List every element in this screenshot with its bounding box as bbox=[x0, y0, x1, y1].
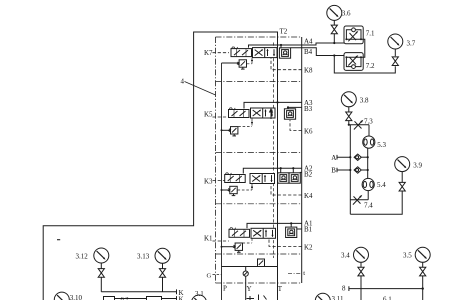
wire K6 dashed bbox=[290, 120, 302, 130]
wire A/B manifold vertical bbox=[349, 125, 351, 215]
gauge 3.5 bbox=[415, 247, 430, 262]
junction 3.8 bbox=[348, 124, 350, 126]
check cartridge C1 bbox=[286, 227, 297, 237]
valve V2 main spool bbox=[250, 174, 275, 184]
svg-text:P: P bbox=[223, 285, 227, 293]
shutoff valve under 3.6 bbox=[331, 25, 337, 34]
check cartridge C3 bbox=[284, 109, 295, 119]
svg-text:B1: B1 bbox=[304, 225, 313, 233]
svg-text:Y: Y bbox=[247, 285, 252, 293]
wire T2 supply pipeline bbox=[43, 32, 277, 300]
solenoid S3 bbox=[229, 108, 250, 118]
solenoid S4 bbox=[231, 47, 252, 57]
svg-text:3.8: 3.8 bbox=[360, 96, 369, 104]
svg-text:3.6: 3.6 bbox=[342, 9, 351, 17]
svg-text:6.1: 6.1 bbox=[383, 296, 392, 300]
junction A2 risers bbox=[280, 167, 282, 169]
svg-text:8: 8 bbox=[342, 284, 346, 292]
svg-text:3.9: 3.9 bbox=[413, 162, 422, 170]
wire A3 line bbox=[244, 102, 302, 108]
svg-text:K5: K5 bbox=[204, 110, 213, 118]
wire 3.4 stem bbox=[360, 262, 362, 300]
flow meter 5.4 bbox=[362, 178, 374, 190]
wire P to pilot Z3 bbox=[222, 129, 231, 131]
svg-text:B2: B2 bbox=[304, 170, 313, 178]
valve V1 main spool bbox=[251, 228, 276, 238]
relief arrow S3 bbox=[270, 109, 273, 119]
check cartridge C2a bbox=[278, 173, 289, 183]
svg-text:3.4: 3.4 bbox=[341, 251, 350, 259]
svg-text:T2: T2 bbox=[280, 28, 288, 36]
svg-text:7.3: 7.3 bbox=[364, 118, 373, 126]
svg-text:3.11: 3.11 bbox=[332, 295, 344, 300]
throttle 7.3 bbox=[349, 124, 369, 126]
svg-text:K: K bbox=[179, 296, 184, 300]
pilot valve Z2 bbox=[228, 186, 237, 195]
gauge 3.9 bbox=[395, 157, 410, 172]
junction 3.6/A4 bbox=[333, 42, 335, 44]
valve V4 main spool bbox=[253, 48, 278, 58]
wire K1 pilot dashed bbox=[213, 240, 230, 242]
gauge 3.7 bbox=[388, 34, 403, 49]
wire P supply line bbox=[221, 63, 223, 300]
svg-text:B3: B3 bbox=[304, 105, 313, 113]
shutoff valve under 3.9 bbox=[399, 182, 405, 191]
throttle 7.4 bbox=[350, 199, 368, 201]
shutoff valve under 3.4 bbox=[358, 267, 364, 276]
svg-text:7.2: 7.2 bbox=[366, 62, 375, 70]
wire pilot dash S1 bbox=[243, 238, 253, 243]
valve V3 main spool bbox=[251, 108, 276, 118]
pilot valve Z4 bbox=[238, 60, 247, 69]
wire 3.13 stem bbox=[162, 263, 164, 292]
wire gauge 3.6 stem bbox=[333, 20, 335, 43]
svg-text:K4: K4 bbox=[304, 192, 313, 200]
svg-text:K1: K1 bbox=[204, 234, 213, 242]
svg-text:4: 4 bbox=[181, 78, 185, 86]
check valve A bbox=[354, 154, 361, 160]
wire to 5.3 bbox=[368, 125, 370, 137]
svg-text:7.4: 7.4 bbox=[364, 202, 373, 210]
svg-text:3.12: 3.12 bbox=[76, 252, 89, 260]
wire K test line bbox=[101, 289, 176, 294]
junction 3.5 line bbox=[422, 287, 424, 289]
shuttle valve block bottom bbox=[258, 259, 265, 267]
svg-text:T: T bbox=[278, 285, 283, 293]
gauge 3.12 bbox=[94, 248, 109, 263]
pilot valve Z3 bbox=[229, 127, 238, 136]
gauge 3.11 (cut) bbox=[315, 293, 330, 300]
wire 3.9 stem bbox=[401, 171, 403, 182]
shutoff valve under 3.5 bbox=[420, 267, 426, 276]
wire pilot dash S2 bbox=[238, 184, 253, 190]
svg-text:5.3: 5.3 bbox=[377, 141, 386, 149]
gauge 3.4 bbox=[354, 247, 369, 262]
wire 5.4 down bbox=[367, 191, 369, 200]
junction A4 riser bbox=[280, 44, 282, 46]
gauge 3.10 (cut) bbox=[54, 292, 69, 300]
svg-text:K7: K7 bbox=[204, 49, 213, 57]
svg-text:K8: K8 bbox=[304, 67, 313, 75]
section divider lines bbox=[216, 82, 302, 255]
svg-text:B: B bbox=[331, 167, 336, 175]
svg-text:6.2: 6.2 bbox=[121, 296, 129, 300]
wire A2 line bbox=[243, 168, 301, 173]
svg-text:K3: K3 bbox=[204, 177, 213, 185]
wire pilot dash S4 bbox=[247, 58, 252, 64]
wire bottom gallery bbox=[222, 266, 278, 268]
wire 3.7 stem bbox=[394, 49, 396, 56]
junction A1 riser bbox=[290, 222, 292, 224]
wire K4 dashed bbox=[271, 184, 302, 195]
scan speck bbox=[57, 239, 60, 240]
svg-text:3.7: 3.7 bbox=[407, 40, 416, 48]
wire K8 dashed bbox=[271, 58, 302, 70]
wire B3 line bbox=[288, 107, 302, 108]
wire bottom to 3.9 bbox=[350, 191, 402, 214]
junction A3/T bbox=[276, 101, 278, 103]
svg-text:3.5: 3.5 bbox=[403, 251, 412, 259]
wire K5 pilot dashed bbox=[213, 116, 229, 118]
wire P to pilot Z1 bbox=[222, 246, 236, 248]
wire line 8 bbox=[349, 286, 423, 291]
solenoid S1 bbox=[229, 228, 250, 238]
solenoid S2 bbox=[225, 173, 246, 183]
shutoff valve under 3.12 bbox=[98, 269, 104, 278]
wire A4 line bbox=[249, 43, 345, 48]
flow control valve 7.2 bbox=[344, 53, 363, 71]
wire A1 line bbox=[247, 223, 302, 228]
pump unit fragments (cut at bottom edge) bbox=[247, 295, 267, 300]
wire B4 line bbox=[291, 48, 344, 56]
check cartridge C2b bbox=[289, 173, 300, 183]
shutoff valve under 3.13 bbox=[159, 269, 165, 278]
wire B1 line bbox=[297, 228, 302, 230]
svg-text:7.1: 7.1 bbox=[366, 30, 375, 38]
svg-text:B4: B4 bbox=[304, 48, 313, 56]
wire 3.5 stem bbox=[422, 262, 424, 300]
shutoff valve under 3.8 bbox=[346, 112, 352, 121]
flow meter 5.3 bbox=[363, 136, 375, 148]
gauge 3.6 bbox=[327, 5, 342, 20]
wire K2 dashed bbox=[269, 238, 302, 246]
svg-text:5.4: 5.4 bbox=[377, 181, 386, 189]
wire 7.1-7.2 link bbox=[361, 39, 365, 57]
svg-text:G: G bbox=[207, 273, 212, 280]
pilot valve Z1 bbox=[234, 243, 243, 252]
wire B2 line bbox=[300, 171, 301, 174]
svg-text:A: A bbox=[331, 154, 336, 162]
wire 3.12 stem bbox=[100, 263, 102, 292]
svg-text:3.1: 3.1 bbox=[195, 290, 204, 298]
shutoff valve under 3.7 bbox=[392, 57, 398, 66]
wire K3 pilot dashed bbox=[213, 180, 225, 182]
check valve B bbox=[354, 167, 361, 173]
wire P to pilot Z2 bbox=[222, 189, 230, 191]
wire K7 pilot dashed bbox=[213, 52, 230, 54]
svg-text:3.13: 3.13 bbox=[137, 253, 150, 261]
wire pilot dash S3 bbox=[238, 119, 252, 127]
wire 3.8 stem bbox=[348, 107, 350, 125]
svg-text:t: t bbox=[303, 270, 305, 277]
valve block outline (item 4) bbox=[216, 37, 302, 283]
orifice on Y line bbox=[243, 271, 248, 276]
wire pilot drain (dashed) bbox=[273, 43, 275, 259]
check cartridge C4 bbox=[279, 48, 290, 58]
svg-text:3.10: 3.10 bbox=[70, 294, 83, 300]
wire 5.3 down bbox=[367, 148, 369, 179]
svg-text:K6: K6 bbox=[304, 127, 313, 135]
wire Y line bbox=[245, 267, 247, 300]
gauge 3.1 (cut) bbox=[192, 295, 207, 300]
wire K second line (cut) bbox=[115, 296, 177, 300]
flow control valve 7.1 bbox=[344, 26, 363, 44]
svg-text:A4: A4 bbox=[304, 38, 313, 46]
junction B4 branch bbox=[333, 54, 335, 56]
gauge 3.8 bbox=[341, 92, 356, 107]
wire P to pilot Z4 bbox=[222, 62, 240, 64]
svg-text:K2: K2 bbox=[304, 243, 313, 251]
gauge 3.13 bbox=[155, 248, 170, 263]
